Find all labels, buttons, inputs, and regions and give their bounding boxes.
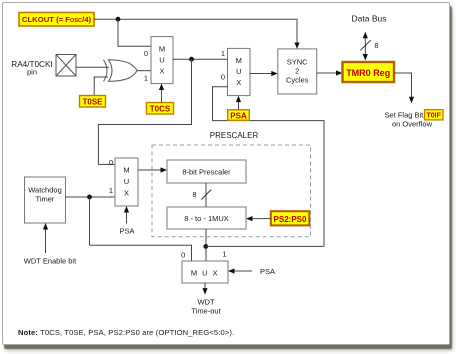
wire XOR output to MUX1 input 1 (137, 70, 151, 72)
svg-text:M: M (159, 45, 165, 54)
block Watchdog Timer (25, 177, 66, 223)
register TMR0 Reg (343, 62, 395, 82)
svg-text:0: 0 (109, 158, 113, 167)
svg-text:Time-out: Time-out (191, 307, 221, 316)
svg-text:M U X: M U X (191, 269, 219, 278)
mux U5 (WDT time-out MUX) (182, 261, 228, 283)
wire MUX1 output to MUX2 (173, 58, 228, 60)
wire SYNC output arrow to TMR0 (317, 72, 336, 74)
svg-text:Watchdog: Watchdog (28, 186, 62, 195)
svg-text:8-bit Prescaler: 8-bit Prescaler (182, 168, 231, 177)
label Set Flag Bit T0IF on Overflow (385, 110, 444, 129)
mux U4 (prescaler input MUX) (115, 158, 138, 206)
svg-text:8 - to - 1MUX: 8 - to - 1MUX (184, 214, 229, 223)
svg-text:U: U (236, 67, 241, 76)
svg-text:1: 1 (144, 74, 148, 83)
bus width slash 8 (360, 40, 371, 50)
svg-text:0: 0 (144, 49, 148, 58)
wire MUX1 output down to MUX3 input 0 (98, 59, 191, 164)
svg-text:1: 1 (109, 186, 113, 195)
wire WDT output to MUX3 input 1 (66, 196, 116, 198)
wire 8-to-1 MUX output down to MUX4 input 1 (205, 229, 207, 261)
wire Data Bus double arrow (364, 37, 366, 57)
svg-text:T0CS: T0CS (150, 105, 171, 114)
block SYNC 2 Cycles (278, 49, 317, 94)
wire pin to XOR (76, 66, 109, 68)
wire MUX2 output arrow to SYNC (250, 73, 272, 75)
wire CLKOUT to SYNC corner (94, 19, 297, 44)
node RA4/T0CKI pin (56, 55, 76, 77)
svg-text:Set Flag Bit: Set Flag Bit (385, 111, 425, 120)
wire TMR0 to overflow flag (394, 73, 412, 98)
wire MUX2 input 0 loop from prescaler output (213, 87, 325, 247)
svg-text:8: 8 (192, 190, 196, 199)
wire prescaler to 8-to-1 MUX (205, 183, 207, 207)
svg-text:1: 1 (222, 250, 226, 259)
block 8-to-1 MUX (167, 207, 246, 229)
wire PSA select arrow into MUX3 (126, 212, 128, 224)
prescaler dashed boundary (152, 145, 311, 237)
svg-text:pin: pin (27, 68, 37, 77)
wire T0CS select arrow into MUX1 (161, 89, 163, 103)
svg-text:PSA: PSA (230, 111, 247, 120)
label RA4/T0CKI pin (11, 60, 52, 77)
wire PS2:PS0 select arrow into 8-to-1 MUX (253, 218, 271, 220)
svg-text:Data Bus: Data Bus (352, 14, 387, 24)
junction dot on CLKOUT line (116, 17, 121, 22)
junction dot MUX1 output (189, 57, 194, 62)
wire WDT Enable bit arrow (45, 229, 47, 254)
svg-text:WDT: WDT (197, 298, 214, 307)
svg-text:X: X (159, 67, 164, 76)
svg-text:X: X (236, 78, 241, 87)
svg-text:M: M (236, 56, 242, 65)
svg-text:M: M (123, 166, 129, 175)
svg-text:0: 0 (181, 251, 185, 260)
wire junction to MUX1 input 0 (118, 19, 151, 46)
svg-text:U: U (159, 56, 164, 65)
svg-text:Cycles: Cycles (286, 76, 309, 85)
wire prescaler output to MUX2 loop (206, 245, 324, 247)
svg-text:8: 8 (374, 41, 378, 50)
wire PSA select arrow into MUX2 (238, 101, 240, 110)
junction dot prescaler output (203, 244, 208, 249)
label WDT Time-out (191, 298, 221, 316)
label PSA (boxed) (228, 110, 250, 121)
block 8-bit Prescaler (167, 160, 246, 183)
junction dot WDT output (87, 195, 92, 200)
svg-text:WDT Enable bit: WDT Enable bit (24, 257, 77, 266)
svg-text:T0SE: T0SE (82, 98, 103, 107)
svg-text:Note: T0CS, T0SE, PSA, PS2:PS0: Note: T0CS, T0SE, PSA, PS2:PS0 are (OPTI… (18, 328, 234, 337)
svg-text:U: U (124, 177, 129, 186)
svg-text:PSA: PSA (119, 227, 134, 236)
svg-text:X: X (124, 189, 129, 198)
label T0SE (80, 96, 106, 108)
arrowhead into SYNC (294, 43, 299, 49)
svg-text:on Overflow: on Overflow (392, 120, 433, 129)
mux U3 (PSA MUX) (228, 48, 251, 95)
svg-text:Timer: Timer (36, 195, 55, 204)
label CLKOUT (= Fosc/4) (19, 13, 94, 27)
wire WDT bypass to MUX4 input 0 (90, 197, 192, 261)
mux U2 (T0CS MUX) (151, 37, 173, 84)
gate XOR U1 (104, 60, 138, 82)
bus width slash 8 (201, 190, 211, 200)
wire MUX3 output arrow to 8-bit Prescaler (138, 169, 161, 171)
wire PSA select arrow into MUX4 (235, 270, 253, 272)
svg-text:TMR0 Reg: TMR0 Reg (346, 68, 390, 78)
label PS2:PS0 (271, 211, 310, 225)
svg-text:PRESCALER: PRESCALER (210, 131, 259, 140)
svg-text:T0IF: T0IF (427, 113, 442, 120)
svg-text:PS2:PS0: PS2:PS0 (274, 215, 307, 224)
wire MUX4 output arrow WDT time-out (204, 283, 206, 289)
svg-text:0: 0 (221, 73, 225, 82)
svg-text:SYNC: SYNC (287, 58, 308, 67)
svg-text:PSA: PSA (260, 267, 275, 276)
svg-text:1: 1 (221, 49, 225, 58)
svg-text:2: 2 (295, 67, 299, 76)
label T0CS (147, 103, 174, 115)
wire T0SE to XOR lower input (94, 77, 108, 96)
